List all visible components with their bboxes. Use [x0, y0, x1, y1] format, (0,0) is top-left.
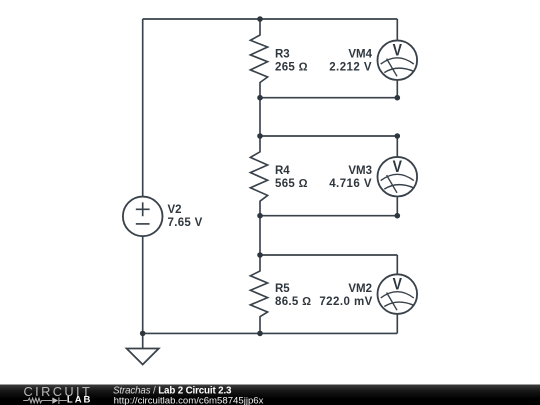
junction node3 right (VM3 top)	[395, 133, 401, 139]
V2 plus sign	[136, 202, 150, 216]
svg-text:R5: R5	[275, 283, 290, 295]
svg-text:V: V	[393, 158, 403, 176]
wire: VM3 bottom lead	[396, 196, 398, 216]
VM4 needle	[387, 59, 397, 77]
wire: left vertical from top rail down to V2 top	[142, 19, 144, 197]
wire: rail node3 (R4 top to VM3 top)	[260, 135, 397, 137]
svg-text:VM3: VM3	[348, 165, 372, 177]
wire: V2 bottom lead down to bottom rail	[142, 236, 144, 333]
svg-text:4.716 V: 4.716 V	[329, 178, 372, 190]
wire: VM4 bottom lead	[396, 80, 398, 98]
VM3 needle	[387, 175, 397, 193]
wire: VM3 top lead	[396, 136, 398, 157]
wire: rail node5 (R5 top to VM2 top)	[260, 254, 397, 256]
VM2 needle	[387, 293, 397, 311]
svg-text:LAB: LAB	[67, 394, 93, 405]
junction node4 left	[257, 213, 263, 219]
svg-text:86.5 Ω: 86.5 Ω	[275, 296, 311, 308]
junction node3 left	[257, 133, 263, 139]
logo schematic doodle: wire, resistor zigzag, diode	[23, 397, 67, 404]
wire: rail node4 (R4 bottom to VM3 bottom)	[260, 215, 397, 217]
svg-text:R3: R3	[275, 49, 290, 61]
wire: VM2 top lead	[396, 255, 398, 275]
junction node2 right (VM4 bottom)	[395, 95, 401, 101]
VM4 meter scale arcs	[381, 58, 414, 73]
junction node4 right (VM3 bottom)	[395, 213, 401, 219]
wire: ground stub	[142, 333, 144, 348]
resistor R3	[250, 19, 267, 98]
VM2 meter scale arcs	[381, 292, 414, 307]
junction node: bottom rail / R5	[257, 331, 263, 337]
wire: rail node2 (R3 bottom to VM4 bottom)	[260, 97, 397, 99]
voltmeter VM3 circle	[378, 157, 418, 197]
svg-text:722.0 mV: 722.0 mV	[319, 296, 372, 308]
voltmeter VM2 circle	[378, 274, 418, 314]
svg-text:VM2: VM2	[348, 283, 372, 295]
junction node: top rail / R3	[257, 16, 263, 22]
junction node: bottom rail / ground	[140, 331, 146, 337]
wire: resistor column between node2 and node3	[259, 98, 261, 136]
svg-text:VM4: VM4	[348, 49, 372, 61]
ground symbol	[127, 349, 159, 365]
wire: top rail	[143, 18, 398, 20]
svg-text:V: V	[393, 275, 403, 293]
svg-text:R4: R4	[275, 165, 290, 177]
logo diode triangle	[52, 398, 58, 404]
voltage source V2 circle	[123, 197, 163, 237]
wire: VM2 bottom lead	[396, 314, 398, 334]
svg-text:2.212 V: 2.212 V	[329, 62, 372, 74]
svg-text:V2: V2	[168, 204, 182, 216]
resistor R5	[250, 255, 267, 333]
wire: bottom rail	[143, 332, 398, 334]
svg-text:V: V	[393, 41, 403, 59]
junction node5 left	[257, 252, 263, 258]
voltmeter VM4 circle	[378, 40, 418, 80]
svg-text:7.65 V: 7.65 V	[168, 217, 203, 229]
V2 minus sign	[136, 223, 150, 225]
junction node2 left	[257, 95, 263, 101]
footer black bar	[0, 385, 540, 405]
wire: resistor column between node4 and node5	[259, 216, 261, 255]
svg-text:565 Ω: 565 Ω	[275, 178, 308, 190]
resistor R4	[250, 136, 267, 216]
VM3 meter scale arcs	[381, 174, 414, 189]
svg-text:http://circuitlab.com/c6m58745: http://circuitlab.com/c6m58745jjp6x	[114, 396, 264, 405]
svg-text:265 Ω: 265 Ω	[275, 62, 308, 74]
wire: VM4 top lead	[396, 19, 398, 41]
